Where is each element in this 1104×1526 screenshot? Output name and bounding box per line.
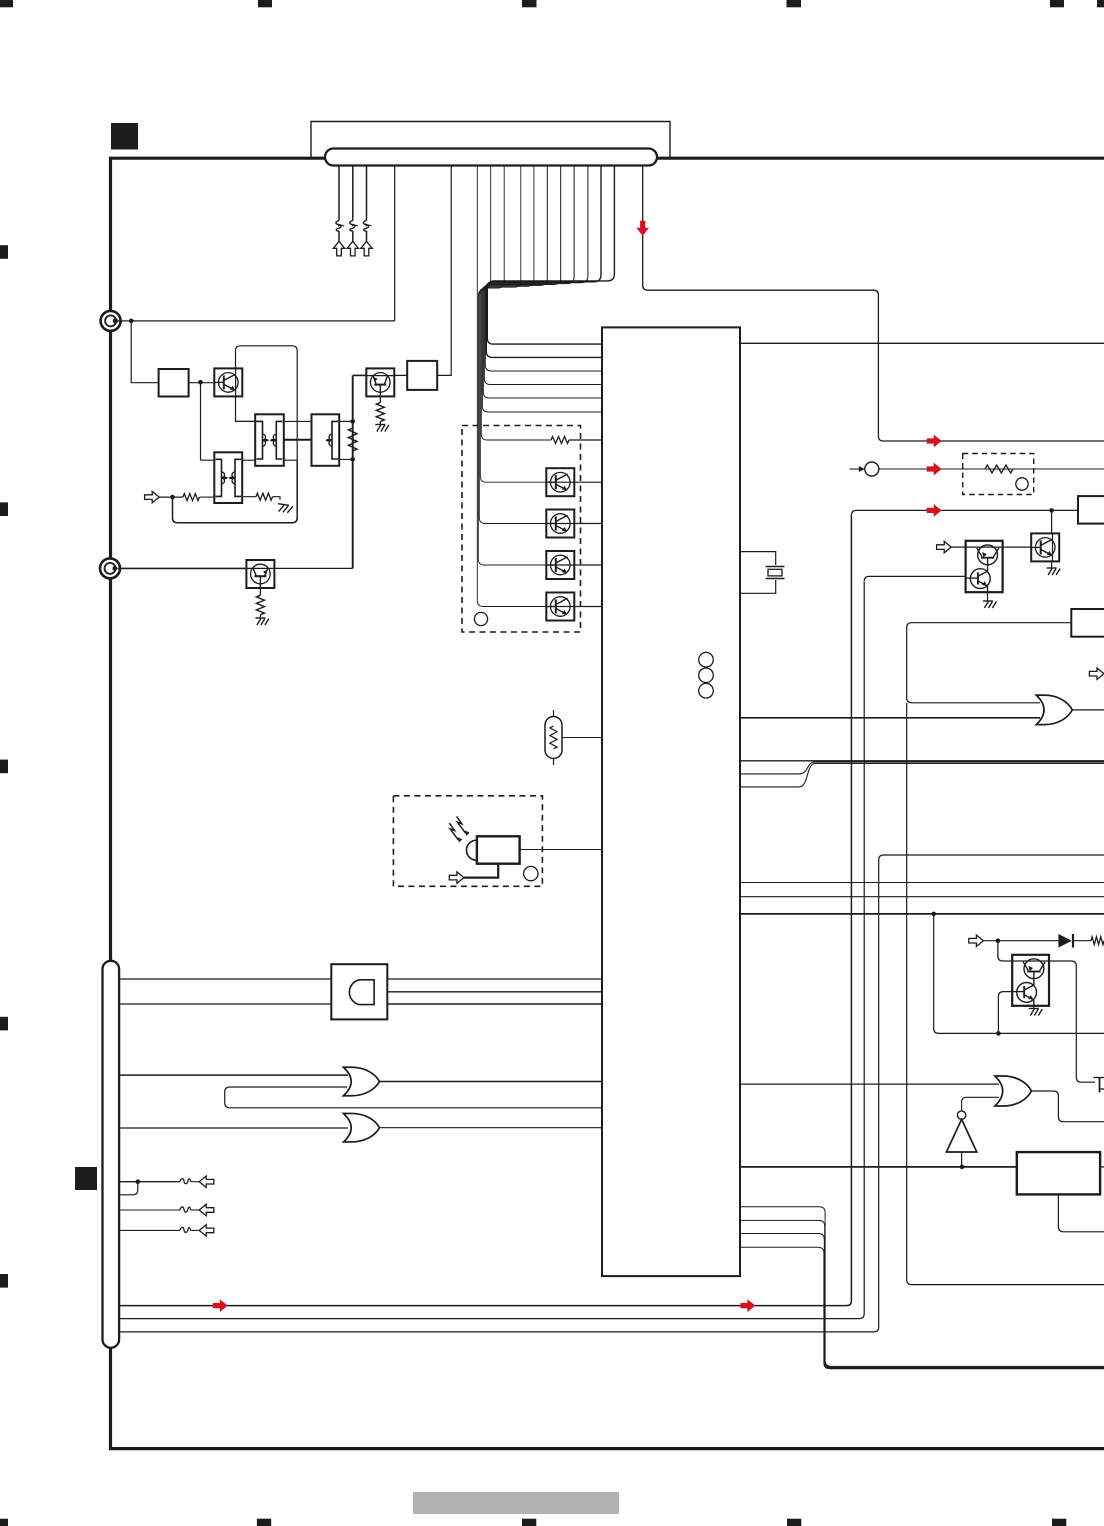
inverter N1 <box>946 1111 976 1152</box>
open arrow to Q5 pair <box>937 541 952 552</box>
wire Q5 to Q4 <box>1003 546 1031 548</box>
wire IC bundle lower 4 y=1247.3 <box>740 1247 1104 1369</box>
wires IC to right edge y=882/897 <box>740 883 1104 897</box>
ground under Q5 <box>983 592 997 608</box>
box B3 right <box>1017 1152 1100 1194</box>
ground under Q3 <box>255 618 269 625</box>
wire bundle 11 pill x=614.4 to row y=344.1 <box>487 166 614 345</box>
break symbol stub 2 <box>180 1207 191 1212</box>
junction at 200.5,382 <box>198 380 203 385</box>
terminal circle with arrow y=469 <box>850 462 879 476</box>
open arrow diode input <box>969 935 984 946</box>
wire inverter to OR5 lower input <box>962 1097 999 1111</box>
terminal T2 <box>100 558 120 578</box>
box B2 <box>407 361 437 390</box>
transistor row y=606.5 <box>546 593 602 621</box>
wire PC1 to PC3 link (thick) <box>284 439 312 441</box>
connector CN2 tall pill <box>103 961 120 1348</box>
wire junction down to Q6 pair <box>998 941 1012 961</box>
wire Q6 top right to vertical 1076 <box>1049 961 1095 1082</box>
crop mark left edge y=1274.0 <box>0 1274 8 1288</box>
resistor row y=440 <box>551 437 602 444</box>
transistor row y=482.2 <box>546 468 602 496</box>
wire loop OR1 bottom input from IC <box>225 1087 602 1108</box>
stub box B3 to right edge <box>1100 1166 1104 1168</box>
OR gate G1 <box>344 1067 380 1096</box>
IR sensor output wire <box>519 849 602 851</box>
wire junction down to Q4 <box>1051 510 1053 533</box>
crop mark bottom x=522 <box>522 1519 536 1526</box>
bus wire y=1332 <box>119 860 878 1332</box>
crop mark bottom x=787 <box>787 1519 801 1526</box>
wire pill pin 2 to arrow <box>352 166 354 242</box>
wire B3 bottom loop to right edge <box>1058 1194 1104 1231</box>
wire pill pin 1 to arrow <box>338 166 340 242</box>
junction before diode <box>996 938 1001 943</box>
transistor pair Q5 box <box>966 541 1003 592</box>
junction on y=510 <box>1049 508 1054 513</box>
wire bundle 6 pill x=547.3 to row y=412.0 <box>482 166 602 413</box>
transistor Q1 <box>214 368 242 396</box>
wire IC bundle lower 3 y=1233.5 <box>740 1234 1104 1369</box>
wire box loop down to OR4 input <box>907 623 1072 703</box>
wire y=469 to right edge <box>879 468 1104 470</box>
junction on y=1167 <box>960 1165 965 1170</box>
open arrow left stub 1 <box>199 1176 214 1187</box>
ground right of PC2 <box>277 504 293 514</box>
wire bundle 4 pill x=520.8 to row y=482.2 <box>480 166 546 483</box>
transistor row y=565.0 <box>546 551 602 579</box>
crop mark left edge y=759.6 <box>0 760 8 774</box>
break symbol on pin 1 <box>336 221 344 232</box>
ground under Q2 <box>375 425 389 432</box>
box B1 <box>159 369 189 397</box>
bus wire y=1318 <box>119 582 864 1319</box>
wire bus to Q2 <box>353 374 366 376</box>
dashed block resistor <box>963 454 1034 495</box>
connector CN1 pill <box>325 149 657 166</box>
wire IC to OR5 top input <box>740 1083 999 1085</box>
wire Q1 collector loop to coupler right <box>236 346 298 460</box>
red arrow right on bus y=1305 <box>740 1299 755 1312</box>
wire arrow to sensor bottom <box>464 864 498 878</box>
crop mark bottom x=1052 <box>1052 1519 1066 1526</box>
wire IC to OR4 lower input <box>740 717 1040 719</box>
wires D-block to IC <box>387 979 602 1004</box>
wire pill to box B2 <box>438 166 452 376</box>
open arrow input REC <box>145 491 160 502</box>
thick wire IC to right edge y=914 <box>740 913 1104 915</box>
resistor under Q2 <box>376 397 384 424</box>
open arrow into sensor block <box>449 872 464 883</box>
resistor in dashed block <box>985 465 1013 473</box>
wire vertical 864 top corner to Q5 lower base <box>864 576 965 581</box>
circle marker in dashed block <box>474 612 487 625</box>
junction at 131,321 <box>129 319 134 324</box>
wire y=510 corner to cut box <box>851 510 1078 515</box>
open arrow left stub 3 <box>199 1225 214 1236</box>
section marker square bottom-left <box>75 1167 97 1190</box>
open arrow left stub 2 <box>199 1204 214 1215</box>
wire y=855 corner to right edge <box>879 855 1104 860</box>
wire Q6 lower base from junction y=1033 <box>998 992 1012 1034</box>
wire triple bus from IC right y=760 <box>740 761 1104 787</box>
vertical bus x=353 thick <box>352 375 354 568</box>
crystal X2 at IC edge <box>740 552 785 594</box>
IR sensor body <box>467 836 520 863</box>
crop mark bottom-left corner <box>0 1519 8 1526</box>
footer gray bar <box>413 1492 619 1514</box>
wire row y=460 through couplers <box>201 459 298 461</box>
red arrow on wire y=441 <box>927 435 942 448</box>
wire bundle 8 pill x=574.1 to row y=384.5 <box>484 166 602 385</box>
wire junction down to B1 <box>131 321 158 383</box>
wire Q3 to bus x=353 <box>274 567 352 569</box>
wire bundle 9 pill x=587.9 to row y=371.0 <box>485 166 602 372</box>
wire IC bundle lower 1 y=1206.8 <box>740 1207 1104 1367</box>
wire pill down with red arrow to right bus <box>643 166 1104 442</box>
wire bundle 2 pill x=490.7 to row y=565.0 <box>478 166 546 566</box>
wire PC2 right pin to resistor <box>242 496 256 498</box>
wire bundle 7 pill x=560.7 to row y=398.0 <box>483 166 602 399</box>
wire bundle 1 pill x=477.3 to row y=606.5 <box>477 166 546 607</box>
wire arrow to junction <box>159 496 183 498</box>
open arrow up pin 2 <box>347 241 358 256</box>
junction at 172.5,497 <box>170 495 175 500</box>
crop mark left edge y=245.2 <box>0 245 8 259</box>
resistor under Q3 <box>256 588 264 617</box>
wire bundle 5 pill x=533.9 to row y=440.0 <box>481 166 551 441</box>
circle marker sensor block <box>524 866 538 880</box>
resistor R PC2 right <box>256 493 273 500</box>
dashed function block KEY <box>462 426 581 633</box>
red arrow on y=510 <box>927 504 942 517</box>
wire junction down and right y=1033 <box>934 914 1104 1034</box>
cut component fragment right edge y=1083 <box>1093 1078 1104 1093</box>
wire OR2 output to IC <box>379 1127 602 1129</box>
wire pill antenna stub 2 <box>119 1209 199 1211</box>
crop mark bottom x=256.9 <box>257 1519 271 1526</box>
wire pill to T1 line <box>394 166 396 321</box>
resistor R parallel on bus <box>349 421 357 459</box>
cut box right edge y=510 <box>1078 496 1104 523</box>
diode D1 <box>1058 934 1073 948</box>
ground under Q6 <box>1029 1006 1043 1016</box>
wire T1 to pill drop <box>118 320 395 322</box>
coupler PC3 box <box>312 414 340 466</box>
break symbol on pin 2 <box>350 221 358 232</box>
coupler PC2 box <box>214 452 242 503</box>
wire Q2 to B2 <box>395 374 408 376</box>
crop mark top 5 <box>1050 0 1064 7</box>
wires pill to D-block <box>119 979 331 1004</box>
open arrow up pin 3 <box>361 241 372 256</box>
wire IC bundle lower 2 y=1220.4 <box>740 1220 1104 1367</box>
crop mark top 4 <box>787 0 802 7</box>
junction dots on bus <box>350 419 355 462</box>
red arrow on y=469 <box>927 463 942 476</box>
wire PC1 right to vertical bus <box>284 420 353 422</box>
transistor Q3 <box>246 560 274 588</box>
OR gate G4 <box>1036 695 1072 725</box>
transistor Q4 <box>1031 533 1059 561</box>
wire OR4 output to right edge <box>1072 709 1104 711</box>
resistor R input left <box>183 494 200 501</box>
wire T2 to Q3 <box>118 567 247 569</box>
wire PC1 top-left pin <box>236 420 263 422</box>
wire junction down to coupler PC2 row <box>200 382 202 460</box>
wire arrow to diode <box>983 940 1058 942</box>
thick wire IC to box y=1167 <box>740 1166 1017 1168</box>
junction on y=1033 <box>996 1031 1001 1036</box>
wire resistor to PC2 <box>199 496 214 498</box>
wire Q1 emitter to coupler PC1 <box>236 397 256 422</box>
OR gate G2 <box>344 1113 380 1142</box>
crop mark left edge y=502.4 <box>0 502 8 516</box>
wire pill to OR1 top input <box>119 1074 348 1076</box>
wire pill antenna stub 1 <box>119 1181 199 1183</box>
wire OR5 output loop to right edge <box>1032 1091 1104 1122</box>
break symbol stub 3 <box>180 1227 191 1232</box>
IR rays <box>449 816 469 842</box>
break symbol stub 1 <box>180 1179 191 1184</box>
wire bundle 10 pill x=601.0 to row y=357.4 <box>486 166 602 358</box>
wire arrow to Q5 box <box>951 546 965 548</box>
OR gate G5 <box>995 1076 1032 1106</box>
red arrow down on wire x=643 <box>636 221 649 236</box>
D-block filter <box>331 964 387 1019</box>
dashed block remote sensor <box>393 796 542 887</box>
open arrow up pin 1 <box>333 241 344 256</box>
wire loop under input to collector node <box>173 460 298 523</box>
three pad circles inside IC <box>699 652 714 698</box>
junction dot antenna stub <box>136 1179 141 1184</box>
terminal T1 <box>101 311 121 331</box>
wire bundle 3 pill x=504.2 to row y=523.5 <box>479 166 546 524</box>
vertical 906.7 continues down <box>907 703 1104 1285</box>
wire diode to resistor cut at edge <box>1073 937 1104 945</box>
crop mark top-right corner <box>1097 0 1104 7</box>
transistor row y=523.5 <box>546 510 602 538</box>
junction on y=914 <box>931 912 936 917</box>
crop mark top 2 <box>258 0 272 7</box>
break symbol on pin 3 <box>363 221 371 232</box>
wire resistor to ground <box>273 497 281 500</box>
wire B1 to Q1 base <box>189 382 218 384</box>
bus wire y=1305 with red arrows <box>119 515 851 1305</box>
crop mark left edge y=1016.8 <box>0 1017 8 1031</box>
transistor pair Q6 box <box>1012 955 1049 1006</box>
wire pill antenna stub 3 <box>119 1229 199 1231</box>
section marker square top-left <box>111 123 138 150</box>
wire pill stub with loop to junction <box>119 1182 138 1195</box>
red arrow left on bus y=1305 <box>213 1299 228 1312</box>
resonator X1 <box>545 710 602 765</box>
wire inverter base to thick bus <box>961 1152 963 1167</box>
wire IC to right edge y=343 <box>740 342 1104 344</box>
crop mark top 3 <box>522 0 537 7</box>
connector shell rectangle CN top <box>311 122 670 158</box>
crop mark top-left corner <box>0 0 13 7</box>
cut box right edge y=622 <box>1071 609 1104 637</box>
IC U1 (system control) <box>602 327 740 1276</box>
schematic border frame <box>111 158 1104 1448</box>
open arrow cut at right edge y=674 <box>1089 668 1104 679</box>
wire pill through OR2 <box>119 1127 348 1129</box>
coupler PC1 box <box>255 414 284 466</box>
transistor Q2 <box>366 368 394 396</box>
circle marker dashed block <box>1016 478 1028 490</box>
wire OR1 output to IC <box>379 1081 602 1083</box>
wire pill pin 3 to arrow <box>366 166 368 242</box>
wire PC3 right pins to bus <box>339 421 353 459</box>
ground under Q4 <box>1047 561 1061 575</box>
